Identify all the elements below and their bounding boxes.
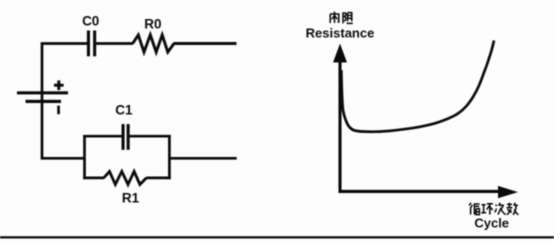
wire: C0 to R0 — [96, 42, 133, 45]
capacitor C1 — [122, 124, 125, 150]
wire: parallel box bottom edge — [83, 177, 171, 180]
chart y-axis arrowhead — [333, 44, 347, 63]
chart x-axis arrowhead — [498, 186, 518, 198]
wire: battery negative down and right to RC box — [42, 102, 85, 158]
wire: RC box to right terminal — [169, 157, 236, 160]
chart axes — [340, 60, 500, 191]
char nei — [330, 12, 339, 23]
battery BT1 negative plate — [26, 100, 62, 103]
capacitor C0 — [87, 31, 90, 57]
svg-text:C0: C0 — [82, 14, 99, 29]
bottom border line — [0, 236, 554, 238]
svg-text:C1: C1 — [115, 102, 133, 117]
char ci — [495, 203, 506, 215]
resistor R0 — [133, 35, 174, 52]
label xunhuancishu (cycle count, CJK) — [469, 203, 518, 215]
wire: parallel box left edge — [83, 135, 86, 179]
svg-text:Cycle: Cycle — [474, 216, 509, 231]
chart resistance curve — [341, 41, 494, 132]
resistor R1 — [104, 171, 147, 184]
wire: parallel box top edge — [83, 135, 171, 138]
char huan — [481, 204, 493, 215]
battery BT1 positive plate — [17, 91, 68, 94]
svg-text:Resistance: Resistance — [306, 25, 375, 40]
char zu — [343, 12, 353, 23]
char xun — [469, 203, 479, 215]
svg-text:R0: R0 — [144, 16, 161, 31]
label neizu (internal resistance, CJK) — [330, 12, 353, 24]
wire: battery positive up and right to C0 — [42, 44, 88, 104]
battery plus sign — [54, 84, 64, 87]
wire: R0 to right terminal — [174, 42, 237, 45]
battery minus tick — [57, 106, 60, 115]
svg-text:R1: R1 — [122, 190, 140, 205]
char shu — [507, 203, 519, 215]
wire: parallel box right edge — [168, 135, 171, 179]
